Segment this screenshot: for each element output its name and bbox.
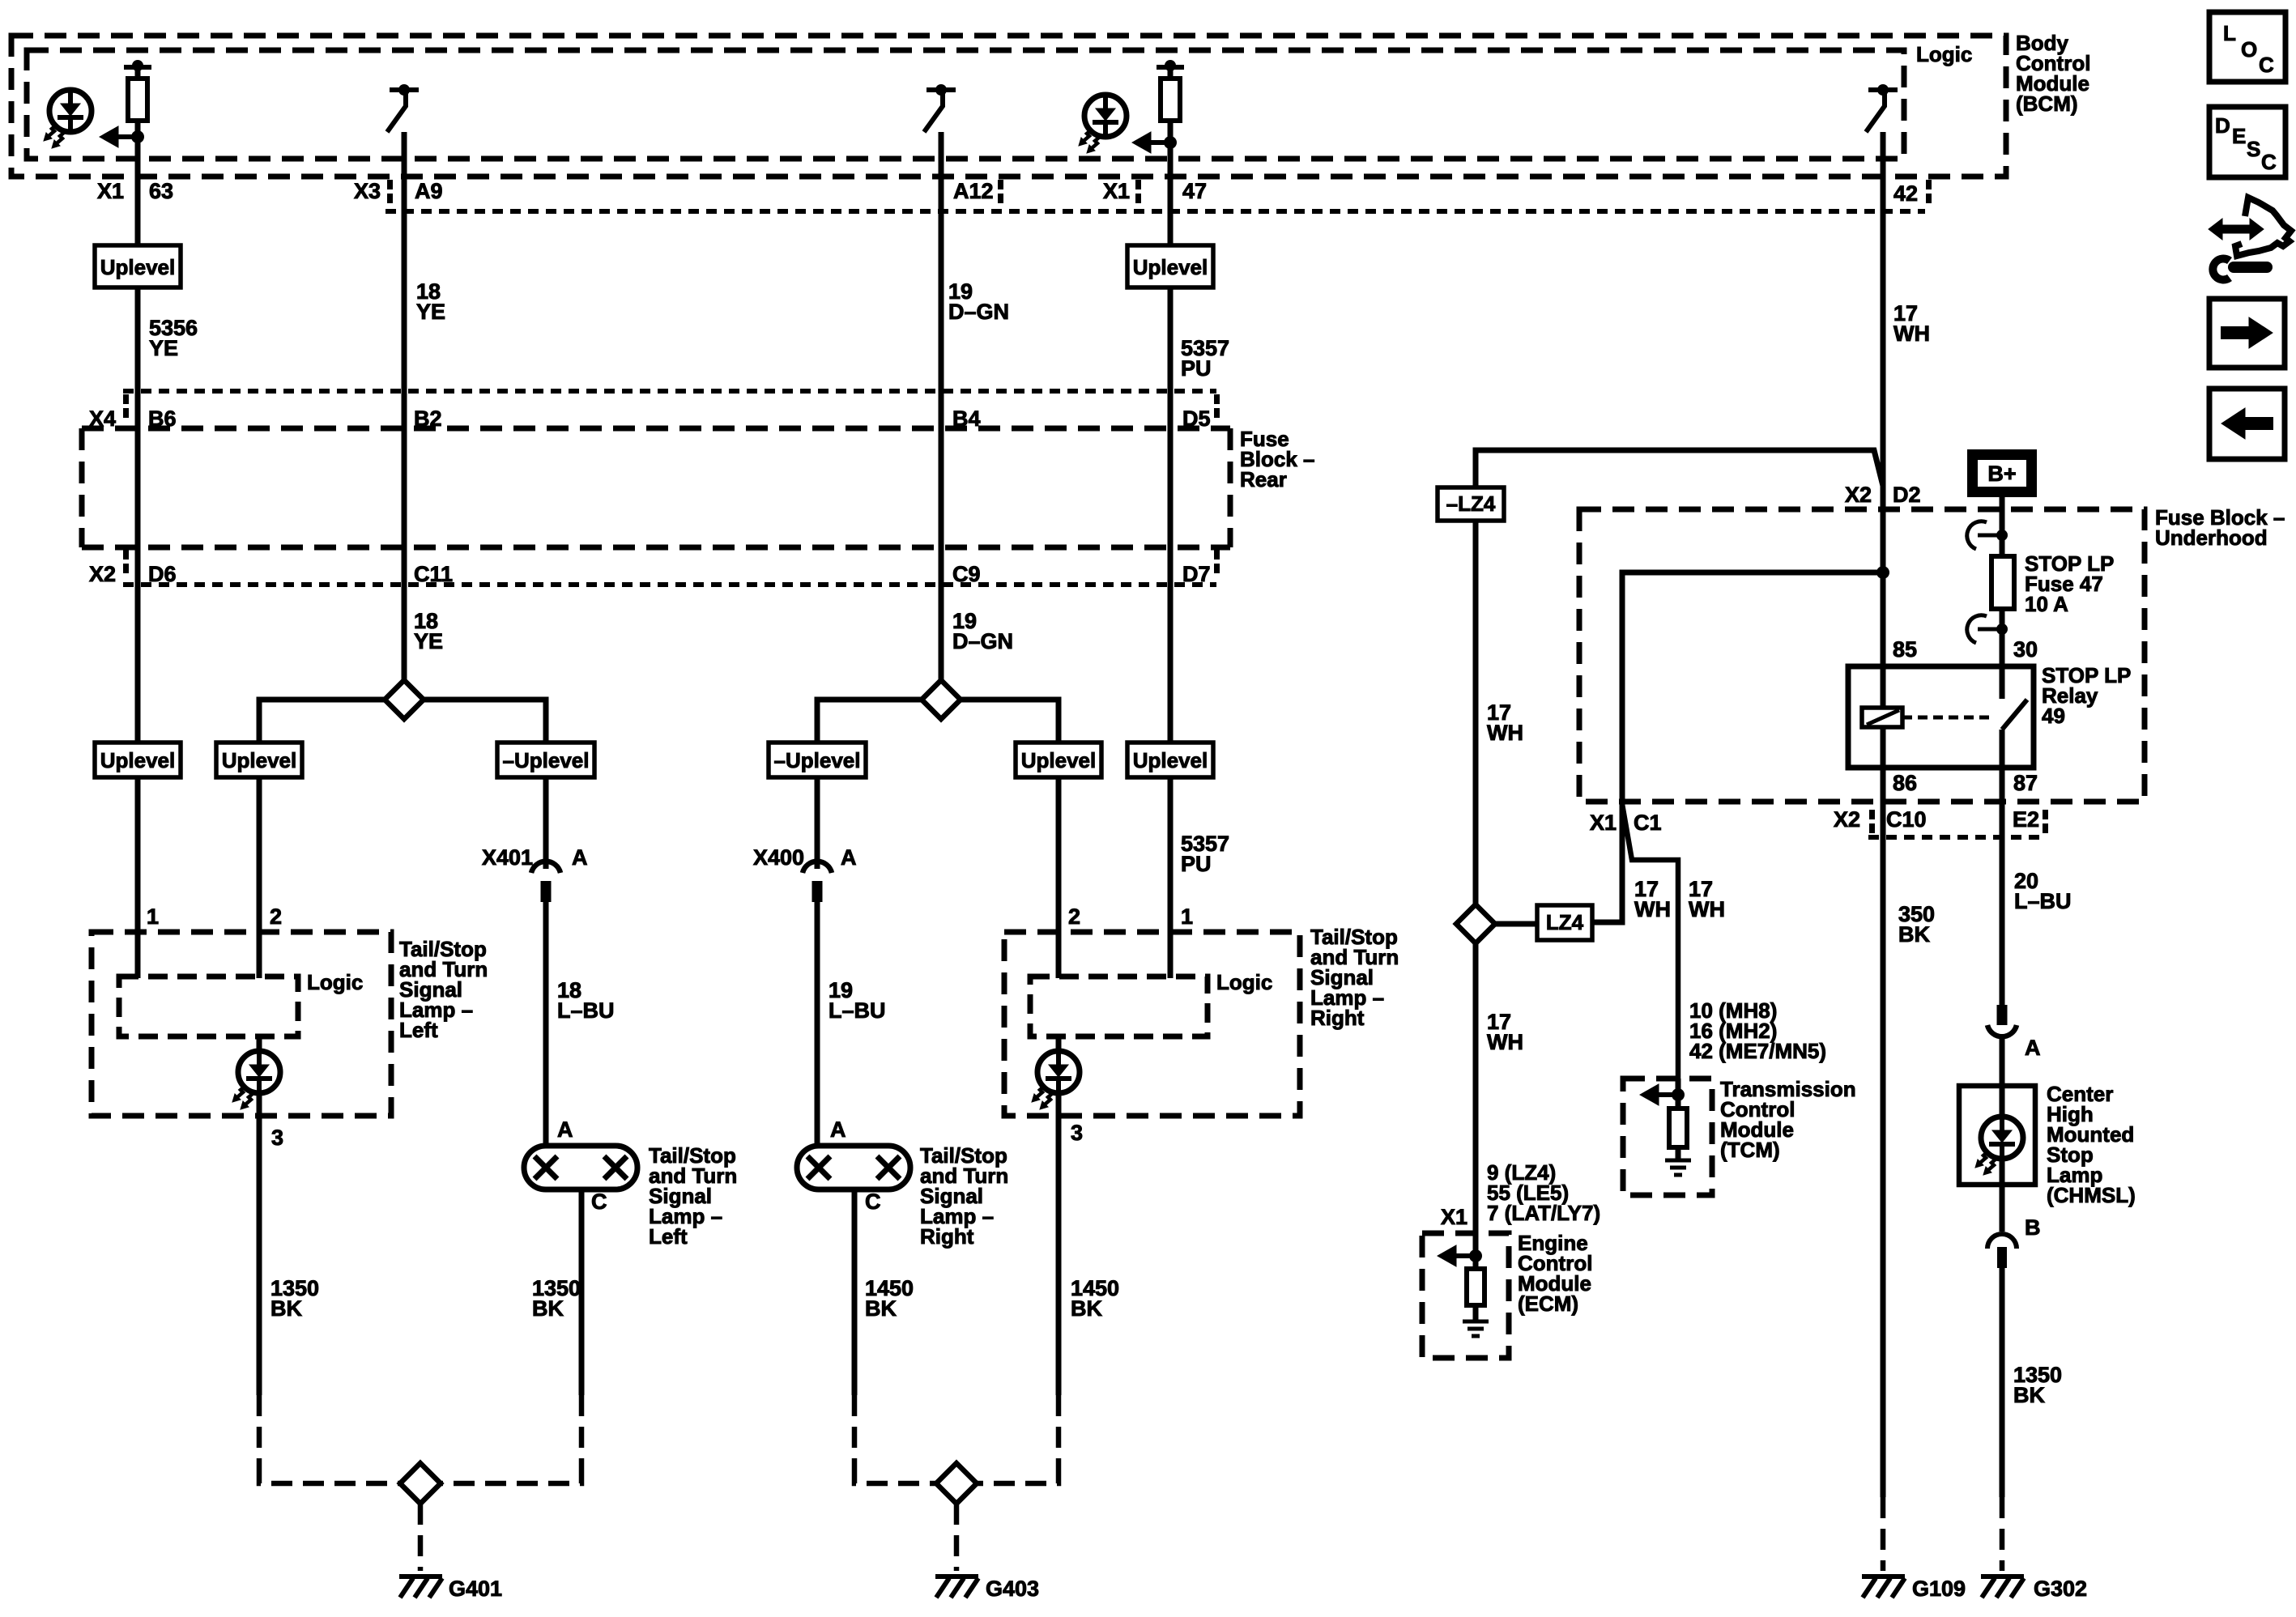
svg-text:X1: X1 (1441, 1205, 1467, 1229)
svg-text:B+: B+ (1987, 462, 2016, 486)
svg-text:C: C (591, 1189, 607, 1214)
svg-text:E: E (2232, 124, 2246, 148)
svg-text:42 (ME7/MN5): 42 (ME7/MN5) (1689, 1039, 1826, 1063)
svg-text:85: 85 (1893, 637, 1917, 662)
svg-text:C10: C10 (1886, 807, 1927, 832)
svg-text:A: A (572, 845, 588, 870)
svg-text:2: 2 (1068, 904, 1080, 929)
svg-text:BK: BK (1071, 1296, 1102, 1321)
svg-text:X1: X1 (1103, 179, 1130, 203)
svg-text:Logic: Logic (1216, 970, 1272, 994)
svg-text:WH: WH (1893, 321, 1930, 346)
svg-text:Uplevel: Uplevel (222, 748, 297, 772)
svg-text:WH: WH (1487, 721, 1523, 745)
svg-text:A: A (2025, 1036, 2041, 1060)
svg-text:Uplevel: Uplevel (100, 255, 176, 279)
svg-text:C: C (2259, 53, 2274, 77)
svg-text:WH: WH (1634, 897, 1671, 921)
svg-text:X401: X401 (482, 845, 533, 870)
svg-text:D6: D6 (148, 562, 177, 586)
svg-text:Rear: Rear (1240, 467, 1287, 491)
svg-text:D–GN: D–GN (952, 629, 1013, 653)
svg-text:10 A: 10 A (2025, 592, 2068, 616)
svg-text:Underhood: Underhood (2155, 526, 2268, 550)
svg-text:A9: A9 (415, 179, 443, 203)
svg-text:86: 86 (1893, 771, 1917, 795)
svg-text:G403: G403 (986, 1577, 1039, 1601)
svg-text:X1: X1 (1590, 811, 1617, 835)
svg-text:47: 47 (1182, 179, 1207, 203)
svg-text:X1: X1 (97, 179, 124, 203)
svg-text:G109: G109 (1912, 1577, 1966, 1601)
svg-text:A12: A12 (953, 179, 994, 203)
svg-text:PU: PU (1181, 852, 1212, 876)
svg-text:D2: D2 (1893, 483, 1921, 507)
svg-text:WH: WH (1689, 897, 1725, 921)
svg-text:42: 42 (1893, 181, 1918, 206)
svg-text:A: A (830, 1117, 846, 1142)
svg-text:WH: WH (1487, 1030, 1523, 1054)
svg-text:Uplevel: Uplevel (100, 748, 176, 772)
svg-text:A: A (557, 1117, 573, 1142)
svg-text:(BCM): (BCM) (2016, 91, 2078, 116)
svg-text:Right: Right (920, 1224, 974, 1249)
svg-text:63: 63 (149, 179, 173, 203)
svg-text:YE: YE (149, 336, 178, 360)
svg-text:E2: E2 (2013, 807, 2039, 832)
svg-text:BK: BK (2013, 1383, 2045, 1407)
svg-text:C11: C11 (414, 562, 453, 586)
svg-text:B: B (2025, 1215, 2041, 1240)
svg-text:X400: X400 (753, 845, 804, 870)
svg-text:B4: B4 (952, 406, 981, 431)
svg-text:C: C (2261, 150, 2277, 174)
svg-text:L–BU: L–BU (557, 998, 615, 1023)
svg-text:YE: YE (414, 629, 443, 653)
svg-text:–Uplevel: –Uplevel (774, 748, 861, 772)
svg-text:–LZ4: –LZ4 (1446, 491, 1496, 516)
svg-text:PU: PU (1181, 356, 1212, 381)
svg-text:L–BU: L–BU (2014, 889, 2072, 913)
svg-text:D–GN: D–GN (948, 300, 1009, 324)
svg-text:30: 30 (2013, 637, 2038, 662)
svg-text:BK: BK (270, 1296, 302, 1321)
svg-text:(ECM): (ECM) (1518, 1291, 1578, 1316)
svg-text:Logic: Logic (307, 970, 363, 994)
svg-text:D: D (2215, 113, 2230, 138)
svg-text:BK: BK (532, 1296, 564, 1321)
svg-text:L–BU: L–BU (829, 998, 886, 1023)
svg-text:C: C (865, 1189, 881, 1214)
svg-text:G401: G401 (449, 1577, 502, 1601)
svg-text:X3: X3 (354, 179, 381, 203)
svg-text:C9: C9 (952, 562, 981, 586)
svg-text:X2: X2 (1845, 483, 1872, 507)
svg-text:BK: BK (865, 1296, 897, 1321)
svg-text:1: 1 (1181, 904, 1193, 929)
svg-text:Right: Right (1310, 1006, 1365, 1030)
svg-text:49: 49 (2042, 704, 2065, 728)
svg-text:X2: X2 (1834, 807, 1860, 832)
svg-text:3: 3 (271, 1126, 283, 1150)
svg-text:D5: D5 (1182, 406, 1211, 431)
svg-text:Logic: Logic (1916, 42, 1972, 66)
svg-text:D7: D7 (1182, 562, 1211, 586)
svg-text:(CHMSL): (CHMSL) (2047, 1183, 2136, 1207)
svg-text:O: O (2241, 37, 2257, 62)
svg-text:Left: Left (649, 1224, 688, 1249)
svg-text:L: L (2223, 21, 2236, 45)
svg-text:X4: X4 (89, 406, 116, 431)
svg-text:1: 1 (147, 904, 159, 929)
svg-text:S: S (2247, 137, 2260, 161)
svg-text:C1: C1 (1634, 811, 1662, 835)
svg-text:7 (LAT/LY7): 7 (LAT/LY7) (1487, 1201, 1600, 1225)
svg-text:Uplevel: Uplevel (1133, 255, 1208, 279)
svg-text:X2: X2 (89, 562, 116, 586)
svg-text:G302: G302 (2034, 1577, 2087, 1601)
svg-text:Uplevel: Uplevel (1021, 748, 1097, 772)
svg-text:Uplevel: Uplevel (1133, 748, 1208, 772)
svg-text:LZ4: LZ4 (1546, 910, 1584, 934)
svg-text:B2: B2 (414, 406, 442, 431)
svg-text:A: A (841, 845, 857, 870)
svg-text:(TCM): (TCM) (1720, 1138, 1780, 1162)
svg-text:2: 2 (270, 904, 282, 929)
svg-text:YE: YE (416, 300, 445, 324)
svg-text:–Uplevel: –Uplevel (503, 748, 590, 772)
svg-text:Left: Left (399, 1018, 438, 1042)
svg-text:BK: BK (1898, 922, 1930, 947)
svg-text:87: 87 (2013, 771, 2038, 795)
svg-text:B6: B6 (148, 406, 177, 431)
svg-text:3: 3 (1071, 1121, 1083, 1145)
